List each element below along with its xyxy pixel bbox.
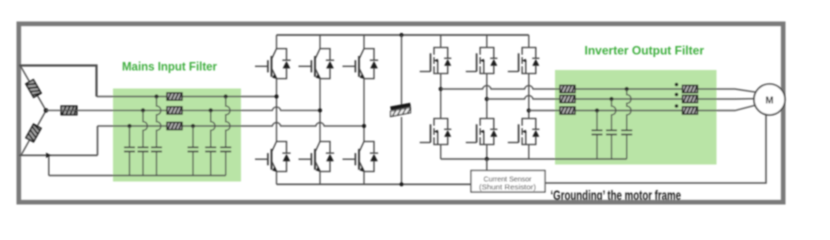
inductor L3 bbox=[167, 122, 182, 129]
node cap tap C2b bbox=[209, 108, 213, 112]
node cap tap C3a bbox=[154, 94, 158, 98]
wire: source diagonal top bbox=[21, 66, 47, 111]
node phase C rectifier bbox=[362, 124, 366, 128]
node phase W bbox=[527, 108, 531, 112]
wire: phase line 2 with hop over bridge leg 1 bbox=[46, 107, 320, 110]
wire leg3 mid bbox=[363, 79, 365, 142]
node cap tap C1b bbox=[191, 124, 195, 128]
capacitor C6 column with hops over lines V,W bbox=[627, 89, 631, 159]
node cap tap C6 bbox=[625, 87, 629, 91]
wire inv leg2 bottom bbox=[486, 145, 488, 160]
impedance box Z2 bbox=[61, 106, 77, 115]
inductor L4 bbox=[560, 85, 575, 92]
inductor L5 bbox=[560, 95, 575, 102]
transistor Q4 bbox=[299, 142, 335, 173]
wire: thick mains top run from frame to filter line 1 bbox=[19, 66, 97, 97]
wire: filter capacitor ground rail bbox=[49, 175, 226, 177]
wire: output line V with hop over leg 3 bbox=[487, 96, 754, 99]
polarity dot L9 bbox=[675, 104, 679, 108]
wire leg2 mid bbox=[319, 79, 321, 142]
wire DC cap drop bbox=[401, 35, 403, 184]
wire: output line W bbox=[529, 105, 756, 110]
transistor Q8 bbox=[420, 119, 452, 145]
node cap tap C3b bbox=[224, 94, 228, 98]
wire: drop from ground run to capacitor rail bbox=[48, 155, 50, 175]
capacitor C4 column bbox=[596, 111, 598, 160]
transistor Q1 bbox=[255, 49, 291, 80]
node cap tap C1a bbox=[127, 124, 131, 128]
motor M1 bbox=[754, 84, 785, 115]
capacitor C5 column with hop over line W bbox=[612, 99, 616, 159]
wire leg3 bottom bbox=[363, 172, 365, 185]
wire: inverter negative rail / filter cap rail bbox=[441, 158, 627, 160]
current sensor box bbox=[471, 171, 545, 193]
capacitor C2a column with hop over line 3 bbox=[143, 110, 147, 175]
wire inv leg3 mid bbox=[528, 74, 530, 119]
impedance box Z3 bbox=[26, 124, 41, 142]
inductor L8 bbox=[683, 95, 698, 102]
capacitor C1b column bbox=[192, 126, 194, 176]
inverter leg 3 drop bbox=[528, 35, 530, 48]
node DC cap top bbox=[399, 33, 403, 37]
wire: DC bus positive rail bbox=[277, 34, 529, 36]
svg-text:Current Sensor: Current Sensor bbox=[484, 176, 533, 183]
svg-text:Inverter Output Filter: Inverter Output Filter bbox=[585, 45, 705, 57]
wire: phase line 1 bbox=[97, 96, 277, 98]
capacitor C3b column with hops over lines 2,3 bbox=[226, 97, 230, 176]
wire inv leg1 bottom bbox=[440, 145, 442, 160]
inductor L7 bbox=[683, 85, 698, 92]
wire: phase line 3 with hops over bridge legs 1,2 bbox=[98, 123, 365, 126]
rectifier leg 1 drop bbox=[276, 35, 278, 49]
wire leg2 bottom bbox=[319, 172, 321, 185]
wire inv leg2 mid bbox=[486, 74, 488, 119]
node cap tap C4 bbox=[595, 108, 599, 112]
node phase A rectifier bbox=[274, 94, 278, 98]
node phase V bbox=[485, 97, 489, 101]
inductor L9 bbox=[683, 107, 698, 114]
transistor Q6 bbox=[343, 142, 379, 173]
wire: source diagonal bottom bbox=[21, 111, 46, 156]
wire: drop to current sensor bbox=[486, 159, 488, 171]
node phase B rectifier bbox=[318, 108, 322, 112]
green box inverter output filter bbox=[555, 70, 717, 165]
node cap tap C2a bbox=[141, 108, 145, 112]
transistor Q10 bbox=[466, 119, 498, 145]
impedance box Z1 bbox=[26, 80, 41, 98]
inverter leg 1 drop bbox=[440, 35, 442, 48]
inductor L2 bbox=[167, 107, 182, 114]
transistor Q12 bbox=[508, 119, 540, 145]
node phase U bbox=[439, 87, 443, 91]
node sensor tap bbox=[485, 157, 489, 161]
svg-text:M: M bbox=[765, 95, 773, 106]
wire inv leg1 mid bbox=[440, 74, 442, 119]
capacitor C1a column bbox=[129, 126, 131, 176]
svg-text:(Shunt Resistor): (Shunt Resistor) bbox=[479, 184, 536, 191]
polarity dot L7 bbox=[675, 83, 679, 87]
transistor Q9 bbox=[466, 48, 498, 74]
inverter leg 2 drop bbox=[486, 35, 488, 48]
wire: ground return to motor frame bbox=[545, 115, 766, 183]
enclosure frame bbox=[19, 24, 783, 202]
wire: DC bus negative rail bbox=[277, 183, 472, 185]
transistor Q2 bbox=[255, 142, 291, 173]
capacitor DC link bbox=[391, 105, 411, 117]
capacitor C3a column with hops over lines 2,3 bbox=[157, 97, 161, 176]
inductor L1 bbox=[167, 93, 182, 100]
node star point bbox=[44, 108, 49, 113]
junction arrow on ground run bbox=[46, 153, 51, 158]
inductor L6 bbox=[560, 107, 575, 114]
wire: output line U with hops over legs 2,3 bbox=[441, 86, 756, 93]
capacitor C2b column with hop over line 3 bbox=[211, 110, 215, 175]
transistor Q7 bbox=[420, 48, 452, 74]
node cap tap C5 bbox=[609, 97, 613, 101]
transistor Q3 bbox=[299, 49, 335, 80]
wire inv leg3 bottom bbox=[528, 145, 530, 160]
transistor Q11 bbox=[508, 48, 540, 74]
green box mains input filter bbox=[113, 89, 241, 182]
wire leg1 bottom bbox=[276, 172, 278, 185]
polarity dot L8 bbox=[675, 93, 679, 97]
wire: ground riser to filter line 3 bbox=[97, 126, 99, 155]
wire leg1 mid bbox=[276, 79, 278, 142]
node DC cap bottom bbox=[399, 182, 403, 186]
wire: chassis ground run along left bbox=[19, 154, 98, 156]
svg-text:Mains Input Filter: Mains Input Filter bbox=[122, 61, 218, 73]
rectifier leg 2 drop bbox=[319, 35, 321, 49]
rectifier leg 3 drop bbox=[363, 35, 365, 49]
transistor Q5 bbox=[343, 49, 379, 80]
